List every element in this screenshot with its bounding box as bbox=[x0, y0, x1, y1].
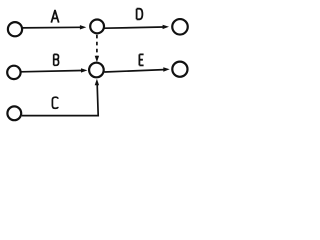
arrowhead of D bbox=[163, 25, 169, 29]
dashed dummy activity wire (top-middle node to middle node) bbox=[96, 35, 98, 56]
node 2 (middle-left circle) bbox=[7, 66, 20, 79]
arrowhead of C (pointing up into middle node) bbox=[95, 79, 99, 85]
node 7 (middle-right circle) bbox=[172, 62, 187, 77]
arrowhead of dummy (pointing down) bbox=[95, 56, 99, 62]
wire A (activity A arrow shaft) bbox=[22, 26, 81, 29]
arrowhead of E bbox=[163, 67, 169, 71]
wire D (activity D arrow shaft) bbox=[105, 27, 164, 28]
node 5 (center-middle circle) bbox=[89, 63, 104, 78]
wire B (activity B arrow shaft) bbox=[21, 71, 81, 72]
node 6 (top-right circle) bbox=[172, 19, 188, 35]
label B bbox=[54, 54, 59, 65]
arrowhead of A bbox=[80, 25, 86, 29]
label A bbox=[51, 11, 58, 23]
node 4 (top-middle circle) bbox=[90, 20, 104, 34]
node 1 (top-left circle) bbox=[8, 22, 22, 36]
wire C (horizontal segment + vertical riser) bbox=[22, 85, 98, 116]
label D bbox=[137, 9, 143, 20]
wire E (activity E arrow shaft) bbox=[105, 70, 165, 72]
node 3 (bottom-left circle) bbox=[7, 106, 21, 120]
label E bbox=[139, 54, 143, 65]
arrowhead of B bbox=[81, 68, 87, 72]
label C bbox=[52, 97, 58, 108]
